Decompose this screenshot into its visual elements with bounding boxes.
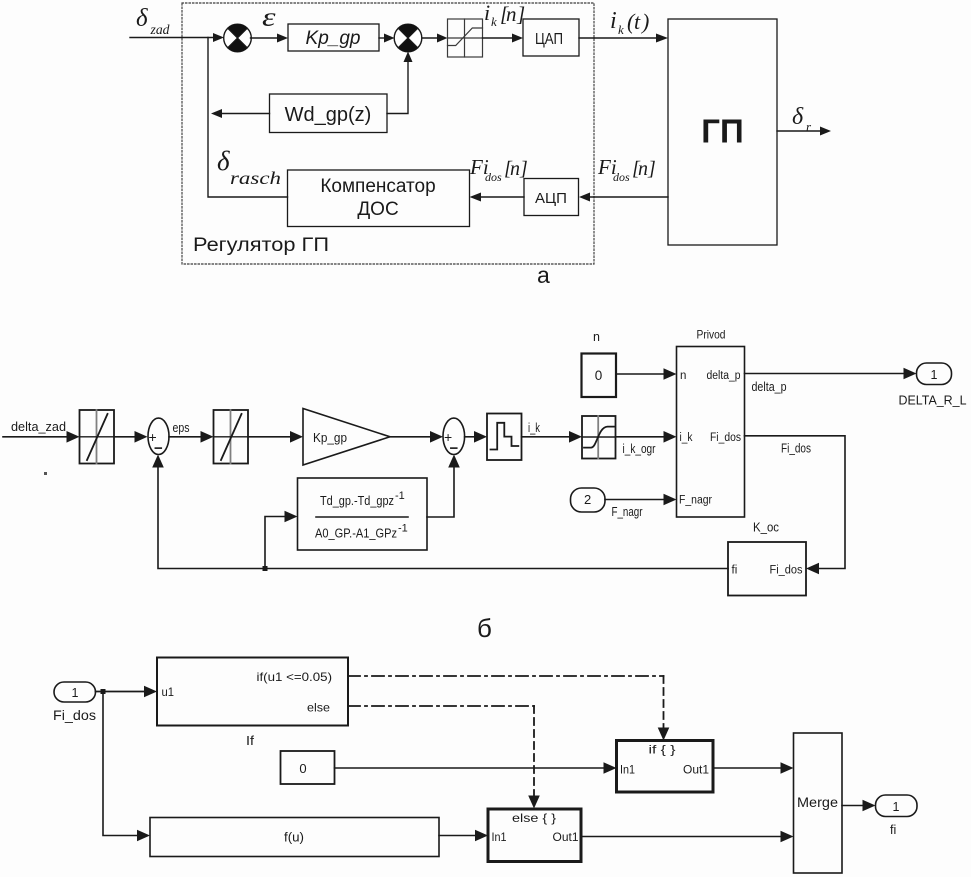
svg-text:i: i xyxy=(484,0,490,25)
svg-text:1: 1 xyxy=(893,800,900,814)
wire saturation to CAP xyxy=(483,34,524,43)
block Privod xyxy=(677,347,745,518)
stray dot xyxy=(44,472,47,475)
sum ellipse E2 xyxy=(443,418,465,457)
svg-text:б: б xyxy=(477,613,492,643)
svg-text:Fi_dos: Fi_dos xyxy=(770,565,803,577)
block K_oc xyxy=(728,542,806,596)
wire RL1 to sum E1 xyxy=(114,431,148,443)
block Td_gp transfer function xyxy=(298,478,428,550)
svg-text:Kp_gp: Kp_gp xyxy=(306,28,361,49)
label Регулятор ГП xyxy=(193,235,329,256)
svg-text:ЦАП: ЦАП xyxy=(535,31,563,48)
wire ADC to Kompensator xyxy=(470,193,525,202)
svg-text:k: k xyxy=(491,14,497,29)
svg-text:]: ] xyxy=(516,2,525,26)
svg-text:Компенсатор: Компенсатор xyxy=(320,176,435,197)
svg-text:i_k_ogr: i_k_ogr xyxy=(623,442,656,456)
svg-text:−: − xyxy=(450,440,459,457)
svg-text:2: 2 xyxy=(584,492,591,507)
wire ZOH to saturation2 xyxy=(522,431,583,443)
svg-text:DELTA_R_L: DELTA_R_L xyxy=(899,394,967,408)
junction dot c xyxy=(101,689,106,694)
block ZOH pulse xyxy=(487,414,522,461)
svg-text:i: i xyxy=(610,8,617,34)
svg-text:n: n xyxy=(593,330,600,344)
wire constant0 to Privod n xyxy=(616,368,677,380)
svg-text:dos: dos xyxy=(485,170,502,184)
svg-text:Fi_dos: Fi_dos xyxy=(53,707,96,723)
svg-text:Merge: Merge xyxy=(797,795,838,810)
block ГП xyxy=(668,19,777,245)
wire input delta_zad xyxy=(130,33,224,42)
wire f(u) to else action In1 xyxy=(439,830,488,842)
node Privod title xyxy=(697,328,726,342)
block ЦАП xyxy=(523,19,579,56)
wire input to rate limiter 1 xyxy=(3,431,80,443)
svg-text:n: n xyxy=(680,370,686,382)
svg-text:δ: δ xyxy=(217,146,230,176)
svg-text:Kp_gp: Kp_gp xyxy=(313,431,347,445)
block rate limiter RL1 xyxy=(80,410,115,464)
node delta_r label xyxy=(792,104,812,134)
node eps label xyxy=(262,3,276,32)
svg-text:ГП: ГП xyxy=(701,113,743,150)
node i_k_ogr label xyxy=(623,442,656,456)
block Компенсатор ДОС xyxy=(288,170,470,227)
svg-text:δ: δ xyxy=(136,5,148,32)
block АЦП xyxy=(524,179,579,216)
svg-text:eps: eps xyxy=(173,421,190,435)
wire down to f(u) xyxy=(103,692,150,842)
node K_oc title xyxy=(753,521,779,535)
outport fi oval xyxy=(876,795,918,817)
node Fi_dos[n] label left xyxy=(469,155,528,184)
svg-text:i_k: i_k xyxy=(528,421,541,435)
node delta_zad label b xyxy=(11,420,66,434)
label a xyxy=(537,262,550,288)
svg-text:delta_p: delta_p xyxy=(707,370,741,382)
block Wd_gp(z) xyxy=(270,94,388,133)
wire S1 to Kp_gp xyxy=(251,34,289,43)
summing junction S1 xyxy=(224,24,252,52)
svg-text:if(u1 <=0.05): if(u1 <=0.05) xyxy=(257,670,333,684)
wire dashdot if output to if action xyxy=(348,676,669,741)
svg-text:In1: In1 xyxy=(492,830,507,844)
node If title xyxy=(246,734,255,748)
svg-text:t: t xyxy=(634,9,641,34)
wire RL2 to gain xyxy=(248,431,303,443)
svg-text:else: else xyxy=(307,701,330,715)
block rate limiter RL2 xyxy=(214,410,249,464)
wire Merge to outport fi xyxy=(842,800,876,812)
svg-text:If: If xyxy=(246,734,255,748)
block constant 0 xyxy=(582,354,617,398)
node delta_p label xyxy=(752,380,787,394)
svg-text:δ: δ xyxy=(792,104,804,130)
svg-text:Fi_dos: Fi_dos xyxy=(781,442,811,456)
gain triangle Kp_gp xyxy=(303,409,390,466)
block If xyxy=(157,658,348,726)
svg-text:-1: -1 xyxy=(395,490,405,502)
svg-text:fi: fi xyxy=(890,823,896,837)
node i_k label xyxy=(528,421,541,435)
label b xyxy=(477,613,492,643)
block saturation DA xyxy=(448,19,483,57)
svg-text:АЦП: АЦП xyxy=(535,190,567,207)
junction dot feedback xyxy=(263,566,268,571)
svg-text:Privod: Privod xyxy=(697,328,726,342)
svg-text:zad: zad xyxy=(149,22,169,37)
svg-text:if { }: if { } xyxy=(649,743,676,757)
svg-text:ДОС: ДОС xyxy=(357,199,398,220)
wire GP output delta_r xyxy=(777,127,831,136)
wire K_oc output feedback long xyxy=(152,455,728,569)
svg-text:n: n xyxy=(506,2,517,26)
wire S2 down to Wd_gp input xyxy=(387,52,413,114)
wire else action to Merge xyxy=(581,831,794,843)
node i_k(t) label xyxy=(610,8,649,37)
wire constant0 to if action In1 xyxy=(335,762,617,774)
svg-text:n: n xyxy=(638,158,648,180)
inport 1 Fi_dos oval xyxy=(54,682,96,702)
svg-text:A0_GP.-A1_GPz: A0_GP.-A1_GPz xyxy=(315,527,397,541)
svg-text:1: 1 xyxy=(931,368,938,382)
wire constant2 to Privod F_nagr xyxy=(605,494,677,506)
wire if action to Merge xyxy=(713,762,794,774)
block f(u) xyxy=(150,818,439,857)
node eps label b xyxy=(173,421,190,435)
svg-text:Out1: Out1 xyxy=(553,830,579,844)
wire CAP to GP with label i_k(t) xyxy=(579,34,668,43)
node Fi_dos[n] label right xyxy=(597,155,656,184)
block constant 2 oval xyxy=(571,488,606,512)
wire E2 to ZOH xyxy=(465,431,487,443)
node delta_zad input label xyxy=(136,5,170,37)
svg-text:Wd_gp(z): Wd_gp(z) xyxy=(285,104,372,126)
svg-text:fi: fi xyxy=(732,565,738,577)
wire S2 to saturation xyxy=(422,34,448,43)
block else action subsystem xyxy=(488,809,581,862)
wire Privod delta_p to out port xyxy=(745,368,917,380)
svg-text:а: а xyxy=(537,262,550,288)
svg-text:k: k xyxy=(618,22,624,37)
svg-text:-1: -1 xyxy=(398,523,408,535)
node fi label xyxy=(890,823,896,837)
wire Td block to E2 xyxy=(427,455,460,518)
svg-text:0: 0 xyxy=(595,368,603,383)
svg-text:n: n xyxy=(510,158,520,180)
svg-text:F_nagr: F_nagr xyxy=(679,495,712,507)
svg-text:F_nagr: F_nagr xyxy=(612,505,643,519)
wire gain to sum E2 xyxy=(390,431,443,443)
svg-text:Регулятор ГП: Регулятор ГП xyxy=(193,235,329,256)
svg-text:delta_zad: delta_zad xyxy=(11,420,66,434)
svg-text:]: ] xyxy=(519,158,528,180)
wire GP feedback to ADC xyxy=(579,193,668,202)
block saturation2 xyxy=(582,416,616,459)
svg-text:In1: In1 xyxy=(620,763,635,777)
svg-text:f(u): f(u) xyxy=(284,831,304,845)
node Fi_dos wire label xyxy=(781,442,811,456)
svg-text:u1: u1 xyxy=(162,685,175,699)
svg-text:Td_gp.-Td_gpz: Td_gp.-Td_gpz xyxy=(320,494,394,508)
svg-text:i_k: i_k xyxy=(680,432,693,444)
svg-text:Fi_dos: Fi_dos xyxy=(710,432,741,444)
outport DELTA_R_L oval xyxy=(917,363,952,385)
svg-text:): ) xyxy=(640,9,649,34)
block Kp_gp xyxy=(288,24,379,51)
wire inport to If block xyxy=(96,686,158,698)
node DELTA_R_L label xyxy=(899,394,967,408)
sum ellipse E1 xyxy=(148,418,169,457)
wire E1 to rate limiter 2 xyxy=(169,431,214,443)
svg-text:K_oc: K_oc xyxy=(753,521,779,535)
svg-text:delta_p: delta_p xyxy=(752,380,787,394)
svg-text:Out1: Out1 xyxy=(683,763,709,777)
svg-text:ε: ε xyxy=(262,3,276,32)
svg-text:−: − xyxy=(154,440,163,457)
block Merge xyxy=(794,733,843,873)
svg-text:else { }: else { } xyxy=(512,811,556,825)
svg-text:]: ] xyxy=(647,158,656,180)
wire Wd_gp output to node xyxy=(211,109,270,118)
wire saturation2 to Privod i_k xyxy=(616,431,677,443)
wire dashdot else output to else action xyxy=(348,706,540,809)
node i_k[n] label xyxy=(484,0,525,29)
dashed boundary box Регулятор ГП xyxy=(182,3,594,264)
wire Privod Fi_dos to K_oc xyxy=(745,436,846,575)
wire Kp_gp to S2 xyxy=(379,34,395,43)
node n label xyxy=(593,330,600,344)
summing junction S2 xyxy=(394,24,422,52)
svg-text:0: 0 xyxy=(299,761,306,776)
wire branch to Td block xyxy=(265,511,298,566)
block if action subsystem xyxy=(617,741,714,793)
node delta_rasch label xyxy=(217,146,281,188)
wire Kompensator output to input node xyxy=(208,38,288,198)
svg-text:dos: dos xyxy=(613,170,630,184)
node Fi_dos label c xyxy=(53,707,96,723)
node F_nagr label below xyxy=(612,505,643,519)
block constant 0 c xyxy=(281,751,335,784)
svg-text:rasch: rasch xyxy=(230,168,281,188)
svg-text:1: 1 xyxy=(72,686,79,700)
